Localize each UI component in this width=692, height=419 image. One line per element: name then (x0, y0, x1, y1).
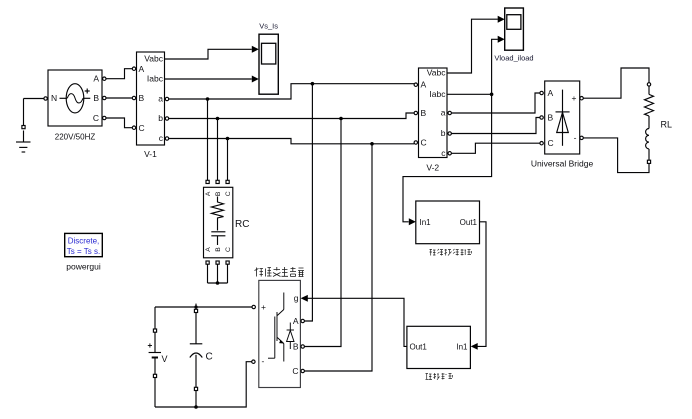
node b-RC tap (216, 117, 220, 121)
powergui block (65, 233, 103, 256)
IGBT + diode icon (268, 293, 294, 362)
svg-text:Discrete,: Discrete, (68, 237, 100, 246)
scope Vs_Is (252, 34, 278, 94)
svg-text:g: g (294, 293, 299, 303)
wire b down to RC (217, 119, 219, 181)
svg-text:RL: RL (661, 120, 673, 130)
svg-text:B: B (293, 342, 299, 352)
wire V-2 Iabc junction (447, 93, 492, 95)
svg-text:b: b (158, 113, 163, 123)
node c-RC tap (226, 137, 230, 141)
series RL load (645, 83, 654, 164)
svg-text:A: A (293, 316, 299, 326)
wire bridge + to RL (583, 68, 649, 98)
wire a down to RC (207, 99, 209, 180)
node comp A tap (311, 82, 315, 86)
wire source B to V-1 B (106, 97, 132, 99)
ground (16, 99, 45, 153)
svg-text:A: A (139, 64, 145, 74)
node a-RC tap (206, 97, 210, 101)
ac source 220V/50HZ (44, 70, 106, 126)
svg-text:-: - (262, 356, 265, 366)
wire V-2 b to bridge B (451, 118, 539, 134)
svg-text:C: C (225, 191, 232, 196)
svg-text:RC: RC (235, 219, 249, 230)
svg-text:b: b (441, 128, 446, 138)
svg-text:In1: In1 (420, 218, 432, 227)
svg-text:In1: In1 (456, 342, 468, 351)
svg-text:V-1: V-1 (144, 149, 157, 159)
wire V-1 Vabc to scope (165, 49, 252, 59)
compensation device block (IGBT) (252, 280, 305, 387)
wire phase a bus (169, 84, 414, 99)
wire V-2 a to bridge A (451, 93, 539, 113)
svg-text:+: + (261, 302, 266, 312)
svg-text:C: C (292, 366, 298, 376)
wire bridge - to RL (583, 138, 649, 173)
universal bridge block (540, 81, 583, 154)
svg-text:C: C (206, 352, 213, 363)
svg-text:A: A (421, 80, 427, 90)
svg-text:A: A (93, 74, 99, 84)
svg-text:powergui: powergui (66, 262, 101, 272)
wire source A to V-1 A (106, 69, 132, 79)
svg-text:A: A (548, 88, 554, 98)
wire V-2 c to bridge C (451, 143, 539, 153)
drive circuit block (407, 326, 471, 368)
svg-text:B: B (215, 247, 222, 252)
svg-text:B: B (548, 113, 554, 123)
svg-text:C: C (93, 113, 99, 123)
svg-text:N: N (51, 93, 57, 103)
wire V-1 Iabc to scope (165, 78, 252, 80)
svg-text:B: B (139, 93, 145, 103)
label 谐波检测模块 (drawn strokes) (430, 249, 472, 256)
svg-text:a: a (441, 108, 446, 118)
wire Iabc up to scope (492, 39, 498, 94)
wire V-2 Vabc to scope (447, 19, 498, 73)
node comp B tap (339, 117, 343, 121)
capacitor C dc link (190, 304, 203, 409)
svg-text:220V/50HZ: 220V/50HZ (55, 133, 96, 142)
svg-text:-: - (574, 133, 577, 143)
svg-text:Out1: Out1 (460, 218, 478, 227)
svg-text:C: C (225, 247, 232, 252)
scope Vload_iload (498, 8, 524, 50)
svg-text:Vload_iload: Vload_iload (494, 54, 533, 63)
RC filter block (204, 180, 233, 264)
svg-text:Iabc: Iabc (147, 74, 164, 84)
wire phase c bus (169, 139, 414, 144)
wire comp B up to phase b (304, 119, 341, 347)
three-phase VI measurement V-2 (414, 68, 451, 158)
wire comp C up to phase c (304, 144, 372, 371)
svg-text:Universal Bridge: Universal Bridge (531, 159, 594, 169)
node Iabc junction (490, 93, 494, 97)
svg-text:A: A (205, 191, 212, 196)
wire source C to V-1 C (106, 118, 132, 128)
svg-text:Out1: Out1 (410, 342, 428, 351)
wire comp A up to phase a (304, 84, 312, 321)
three-phase VI measurement V-1 (132, 52, 168, 145)
wire RC star point (208, 264, 228, 285)
wire Iabc down to harmonic detector (403, 94, 492, 222)
wire c down to RC (227, 139, 229, 181)
wire g input (301, 295, 407, 347)
svg-text:C: C (139, 123, 145, 133)
svg-text:C: C (421, 138, 427, 148)
svg-text:a: a (158, 94, 163, 104)
dc source V (148, 307, 252, 407)
svg-text:B: B (421, 108, 427, 118)
wire phase b bus (169, 113, 414, 119)
svg-text:B: B (93, 93, 99, 103)
wire dc bottom bus (155, 362, 252, 407)
node comp C tap (370, 142, 374, 146)
svg-text:V-2: V-2 (426, 163, 439, 173)
svg-text:Vs_Is: Vs_Is (259, 22, 278, 31)
svg-text:Ts = Ts s.: Ts = Ts s. (67, 247, 100, 256)
svg-text:C: C (548, 138, 554, 148)
harmonic detector block (409, 201, 480, 244)
svg-text:+: + (572, 93, 577, 103)
label 驱动电路 (drawn strokes) (426, 373, 453, 380)
svg-text:Vabc: Vabc (144, 54, 163, 64)
svg-text:Vabc: Vabc (427, 68, 446, 78)
svg-text:Iabc: Iabc (429, 89, 446, 99)
svg-text:B: B (215, 191, 222, 196)
wire harmonic Out1 to drive In1 (478, 222, 487, 347)
svg-text:A: A (205, 247, 212, 252)
svg-text:V: V (162, 354, 168, 364)
label 补偿发生装置 (drawn strokes) (255, 267, 305, 277)
